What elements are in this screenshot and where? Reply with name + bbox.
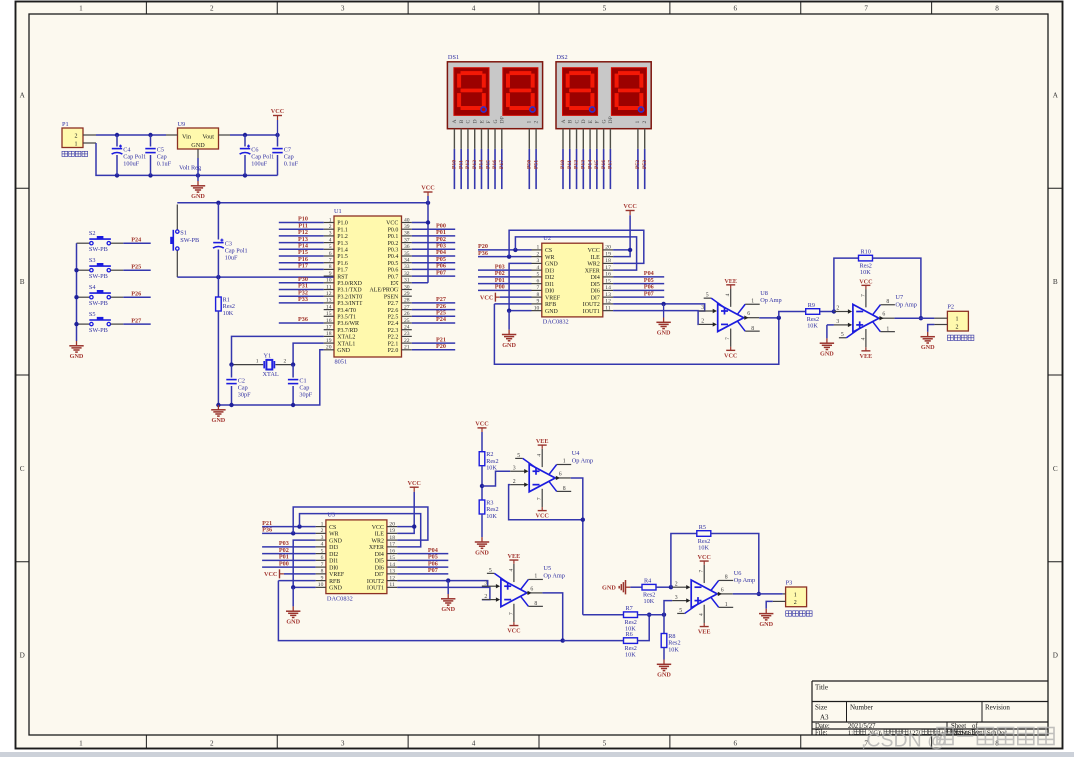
pin 1 bbox=[934, 317, 947, 319]
svg-text:10: 10 bbox=[326, 278, 332, 284]
svg-text:2: 2 bbox=[484, 594, 487, 600]
svg-text:24: 24 bbox=[404, 325, 410, 331]
svg-text:VCC: VCC bbox=[372, 525, 384, 531]
pin 18 bbox=[387, 539, 397, 541]
svg-text:VCC: VCC bbox=[271, 108, 284, 115]
svg-text:17: 17 bbox=[605, 265, 611, 271]
wire bbox=[412, 222, 428, 224]
pin 1 bbox=[562, 129, 564, 149]
svg-text:U6: U6 bbox=[734, 570, 742, 577]
wire bbox=[663, 615, 665, 634]
junction bbox=[507, 308, 511, 312]
ground bbox=[502, 330, 517, 349]
svg-text:3: 3 bbox=[537, 258, 540, 264]
wire bbox=[244, 155, 246, 175]
svg-text:P1.1: P1.1 bbox=[337, 227, 348, 233]
svg-text:F: F bbox=[595, 120, 601, 123]
pin 6 bbox=[744, 317, 760, 319]
svg-text:DI0: DI0 bbox=[545, 289, 554, 295]
svg-text:2: 2 bbox=[956, 324, 959, 330]
svg-text:DI5: DI5 bbox=[591, 282, 600, 288]
pin 3 bbox=[672, 600, 687, 602]
svg-text:DI1: DI1 bbox=[329, 559, 338, 565]
svg-text:P13: P13 bbox=[472, 160, 478, 169]
pin 6 bbox=[527, 592, 543, 594]
junction bbox=[216, 275, 220, 279]
svg-text:4: 4 bbox=[699, 613, 705, 616]
pin 10 bbox=[532, 310, 542, 312]
pin 1 bbox=[532, 249, 542, 251]
pin 38 bbox=[402, 235, 412, 237]
wire bbox=[563, 640, 624, 642]
svg-text:1: 1 bbox=[79, 5, 83, 13]
8051 MCU U1 bbox=[324, 208, 412, 366]
svg-text:GND: GND bbox=[441, 606, 455, 613]
svg-text:10uF: 10uF bbox=[225, 254, 238, 261]
svg-text:G: G bbox=[601, 119, 607, 123]
svg-text:P13: P13 bbox=[581, 160, 587, 169]
wire bbox=[609, 149, 611, 189]
svg-text:6: 6 bbox=[329, 251, 332, 257]
pin 28 bbox=[402, 302, 412, 304]
svg-text:5: 5 bbox=[321, 548, 324, 554]
pin 2 bbox=[532, 256, 542, 258]
wire bbox=[613, 283, 664, 285]
svg-text:B: B bbox=[459, 120, 465, 124]
svg-text:Op Amp: Op Amp bbox=[543, 572, 565, 579]
svg-text:IOUT1: IOUT1 bbox=[367, 586, 384, 592]
pin 14 bbox=[324, 309, 334, 311]
pin 3 bbox=[576, 129, 578, 149]
wire bbox=[300, 514, 421, 547]
pin 7 bbox=[316, 566, 326, 568]
wire bbox=[711, 534, 759, 594]
svg-text:2: 2 bbox=[675, 581, 678, 587]
junction bbox=[291, 403, 295, 407]
pin 3 bbox=[324, 235, 334, 237]
svg-text:2: 2 bbox=[701, 319, 704, 325]
svg-text:P3.0/RXD: P3.0/RXD bbox=[337, 281, 362, 287]
junction bbox=[229, 362, 233, 366]
pin 9 bbox=[324, 275, 334, 277]
wire bbox=[412, 248, 455, 250]
svg-text:12: 12 bbox=[389, 575, 395, 581]
svg-text:D: D bbox=[473, 119, 479, 123]
wire bbox=[412, 228, 455, 230]
svg-text:VREF: VREF bbox=[545, 295, 561, 301]
wire bbox=[515, 237, 636, 270]
svg-text:C: C bbox=[466, 120, 472, 124]
svg-text:P16: P16 bbox=[492, 160, 498, 169]
junction bbox=[662, 613, 666, 617]
svg-text:P15: P15 bbox=[485, 160, 491, 169]
wire bbox=[820, 311, 834, 313]
op-amp U8 bbox=[699, 278, 782, 360]
wire bbox=[397, 492, 414, 533]
pin 1 bbox=[316, 526, 326, 528]
svg-text:20: 20 bbox=[389, 521, 395, 527]
pin 3 bbox=[467, 129, 469, 149]
wire bbox=[279, 322, 324, 324]
svg-text:GND: GND bbox=[70, 353, 84, 360]
pin 16 bbox=[603, 276, 613, 278]
svg-text:GND: GND bbox=[337, 348, 351, 354]
pin 3 bbox=[532, 262, 542, 264]
svg-text:DAC0832: DAC0832 bbox=[327, 595, 353, 602]
switch S3 bbox=[77, 257, 124, 280]
wire bbox=[478, 276, 532, 278]
svg-text:VEE: VEE bbox=[698, 629, 711, 636]
pin 6 bbox=[324, 255, 334, 257]
svg-text:VCC: VCC bbox=[480, 294, 493, 301]
svg-text:36: 36 bbox=[404, 244, 410, 250]
svg-text:7: 7 bbox=[321, 562, 324, 568]
svg-text:27: 27 bbox=[404, 304, 410, 310]
switch S2 bbox=[77, 230, 124, 253]
pin 30 bbox=[402, 289, 412, 291]
wire bbox=[76, 243, 78, 341]
wire bbox=[412, 309, 455, 311]
svg-text:3: 3 bbox=[329, 231, 332, 237]
svg-text:WR2: WR2 bbox=[587, 262, 599, 268]
svg-text:P52: P52 bbox=[635, 160, 641, 169]
svg-text:VEE: VEE bbox=[536, 438, 549, 445]
svg-text:3: 3 bbox=[341, 740, 345, 748]
pin 1 bbox=[521, 579, 529, 589]
wire bbox=[613, 276, 664, 278]
pin 11 bbox=[324, 289, 334, 291]
pin 6 bbox=[879, 317, 895, 319]
switch S4 bbox=[77, 284, 124, 307]
svg-text:Op Amp: Op Amp bbox=[572, 457, 594, 464]
wire bbox=[637, 149, 639, 189]
pin 10 bbox=[535, 129, 537, 149]
svg-text:P20: P20 bbox=[436, 343, 446, 350]
svg-text:9: 9 bbox=[329, 271, 332, 277]
wire bbox=[482, 471, 510, 486]
svg-text:8: 8 bbox=[751, 326, 754, 332]
wire bbox=[478, 269, 532, 271]
wire bbox=[613, 249, 630, 251]
pin 31 bbox=[402, 282, 412, 284]
wire bbox=[397, 559, 448, 561]
svg-text:P15: P15 bbox=[594, 160, 600, 169]
svg-text:GND: GND bbox=[191, 142, 205, 149]
svg-text:DI2: DI2 bbox=[329, 552, 338, 558]
svg-text:19: 19 bbox=[605, 251, 611, 257]
power port VCC bbox=[264, 569, 284, 578]
svg-text:C: C bbox=[574, 120, 580, 124]
svg-text:XTAL1: XTAL1 bbox=[337, 341, 355, 347]
svg-text:P1.7: P1.7 bbox=[337, 268, 348, 274]
wire bbox=[613, 304, 705, 311]
title block bbox=[812, 681, 1048, 737]
svg-text:P1.2: P1.2 bbox=[337, 234, 348, 240]
pin 2 bbox=[324, 228, 334, 230]
pin 9 bbox=[316, 580, 326, 582]
svg-text:P36: P36 bbox=[262, 527, 272, 534]
svg-text:D: D bbox=[20, 652, 25, 660]
pin 11 bbox=[387, 586, 397, 588]
svg-text:20: 20 bbox=[605, 245, 611, 251]
svg-text:2: 2 bbox=[75, 134, 78, 140]
wire bbox=[397, 587, 490, 599]
power port VCC bbox=[407, 480, 420, 492]
crystal Y1 bbox=[232, 352, 294, 378]
pin 2 bbox=[934, 324, 947, 326]
pin 2 bbox=[834, 311, 849, 313]
wire bbox=[664, 601, 672, 615]
svg-text:23: 23 bbox=[404, 331, 410, 337]
svg-text:P07: P07 bbox=[428, 567, 438, 574]
svg-text:SW-PB: SW-PB bbox=[89, 327, 108, 334]
svg-text:16: 16 bbox=[605, 272, 611, 278]
pin 8 bbox=[521, 596, 529, 606]
svg-text:P1.5: P1.5 bbox=[337, 254, 348, 260]
wire bbox=[278, 580, 315, 582]
7-segment display DS1 bbox=[447, 54, 542, 149]
svg-text:GND: GND bbox=[329, 586, 343, 592]
svg-text:A: A bbox=[20, 91, 26, 99]
pin 6 bbox=[555, 477, 571, 479]
pin 8 bbox=[549, 481, 557, 491]
svg-text:32: 32 bbox=[404, 271, 410, 277]
svg-text:P33: P33 bbox=[298, 296, 308, 303]
svg-text:2: 2 bbox=[210, 5, 214, 13]
wire bbox=[638, 614, 665, 616]
svg-text:P0.6: P0.6 bbox=[388, 268, 399, 274]
svg-text:SW-PB: SW-PB bbox=[89, 246, 108, 253]
svg-text:Vin: Vin bbox=[182, 134, 191, 141]
svg-text:P1: P1 bbox=[62, 121, 69, 128]
pin 26 bbox=[402, 315, 412, 317]
svg-text:3: 3 bbox=[321, 535, 324, 541]
svg-text:2: 2 bbox=[210, 740, 214, 748]
wire bbox=[397, 526, 414, 528]
pin 24 bbox=[402, 329, 412, 331]
svg-text:P2.3: P2.3 bbox=[388, 328, 399, 334]
connector P3 bbox=[773, 579, 812, 616]
svg-text:7: 7 bbox=[537, 285, 540, 291]
wire bbox=[177, 202, 428, 204]
junction bbox=[426, 201, 430, 205]
svg-text:S4: S4 bbox=[89, 284, 97, 291]
wire bbox=[197, 175, 199, 181]
ground bbox=[211, 405, 226, 424]
svg-text:Revision: Revision bbox=[985, 704, 1010, 712]
svg-text:GND: GND bbox=[602, 584, 616, 591]
pin 8 bbox=[324, 268, 334, 270]
junction bbox=[412, 524, 416, 528]
svg-text:U1: U1 bbox=[334, 208, 342, 215]
wire bbox=[582, 149, 584, 189]
svg-text:P53: P53 bbox=[642, 160, 648, 169]
pin 19 bbox=[324, 342, 334, 344]
wire bbox=[576, 149, 578, 189]
svg-text:5: 5 bbox=[603, 5, 607, 13]
svg-text:D: D bbox=[581, 119, 587, 123]
svg-text:30pF: 30pF bbox=[238, 391, 251, 398]
svg-text:GND: GND bbox=[286, 619, 300, 626]
pin 2 bbox=[569, 129, 571, 149]
wire bbox=[232, 336, 324, 364]
junction bbox=[661, 302, 665, 306]
svg-text:SW-PB: SW-PB bbox=[180, 237, 199, 244]
power pin 7 VCC bbox=[541, 489, 543, 507]
svg-text:P11: P11 bbox=[458, 160, 464, 169]
svg-text:Op Amp: Op Amp bbox=[760, 297, 782, 304]
svg-text:DI6: DI6 bbox=[375, 565, 384, 571]
wire bbox=[509, 263, 531, 310]
svg-text:7: 7 bbox=[860, 294, 866, 297]
svg-text:Title: Title bbox=[815, 684, 828, 692]
svg-text:P0.4: P0.4 bbox=[388, 254, 399, 260]
wire bbox=[397, 573, 448, 575]
wire bbox=[481, 432, 483, 452]
pin 4 bbox=[316, 546, 326, 548]
svg-text:26: 26 bbox=[404, 311, 410, 317]
svg-text:1: 1 bbox=[321, 521, 324, 527]
svg-text:6: 6 bbox=[321, 555, 324, 561]
svg-text:XFER: XFER bbox=[369, 545, 384, 551]
svg-text:3: 3 bbox=[341, 5, 345, 13]
junction bbox=[229, 403, 233, 407]
wire bbox=[494, 149, 496, 189]
wire bbox=[123, 296, 150, 298]
svg-text:18: 18 bbox=[326, 331, 332, 337]
pin 14 bbox=[603, 289, 613, 291]
ground bbox=[820, 338, 835, 357]
pin 2 bbox=[672, 586, 687, 588]
wire bbox=[177, 276, 334, 278]
pin 3 bbox=[482, 585, 497, 587]
wire bbox=[230, 134, 278, 136]
svg-text:ALE/PROG: ALE/PROG bbox=[369, 288, 399, 294]
7-segment display DS2 bbox=[556, 54, 651, 149]
svg-text:37: 37 bbox=[404, 237, 410, 243]
svg-text:0.1uF: 0.1uF bbox=[157, 160, 172, 167]
svg-text:1: 1 bbox=[526, 121, 532, 124]
svg-text:S3: S3 bbox=[89, 257, 96, 264]
pin 2 bbox=[316, 532, 326, 534]
resistor R2 bbox=[479, 451, 498, 471]
capacitor C5 bbox=[145, 147, 171, 168]
wire bbox=[779, 312, 806, 318]
power pin 7 VCC bbox=[513, 604, 515, 622]
pin 13 bbox=[387, 573, 397, 575]
pin 11 bbox=[603, 310, 613, 312]
svg-text:DI7: DI7 bbox=[591, 295, 600, 301]
svg-text:5: 5 bbox=[706, 293, 709, 299]
svg-text:GND: GND bbox=[820, 351, 834, 358]
wire bbox=[397, 566, 448, 568]
svg-text:30: 30 bbox=[404, 284, 410, 290]
pin 1 bbox=[83, 142, 96, 144]
svg-text:P2.4: P2.4 bbox=[388, 321, 399, 327]
svg-text:VEE: VEE bbox=[860, 353, 873, 360]
svg-text:DI4: DI4 bbox=[375, 552, 384, 558]
pin 2 bbox=[699, 323, 714, 325]
pin 36 bbox=[402, 248, 412, 250]
svg-text:GND: GND bbox=[545, 262, 559, 268]
wire bbox=[397, 553, 448, 555]
power port VCC bbox=[421, 185, 434, 196]
svg-text:11: 11 bbox=[389, 582, 395, 588]
pin 40 bbox=[402, 222, 412, 224]
pin 12 bbox=[324, 295, 334, 297]
svg-text:4: 4 bbox=[472, 740, 476, 748]
junction bbox=[777, 316, 781, 320]
svg-text:VCC: VCC bbox=[407, 480, 420, 487]
svg-text:P3.5/T1: P3.5/T1 bbox=[337, 315, 356, 321]
svg-text:Op Amp: Op Amp bbox=[895, 301, 917, 308]
svg-text:8: 8 bbox=[329, 264, 332, 270]
junction bbox=[115, 173, 119, 177]
resistor R6 bbox=[624, 631, 638, 659]
pin 16 bbox=[387, 553, 397, 555]
ground bbox=[441, 594, 456, 613]
ground bbox=[921, 332, 936, 351]
wire bbox=[292, 365, 294, 378]
junction bbox=[243, 173, 247, 177]
wire bbox=[231, 386, 233, 405]
svg-text:File:: File: bbox=[815, 730, 828, 737]
svg-text:P16: P16 bbox=[601, 160, 607, 169]
pin 9 bbox=[637, 129, 639, 149]
wire bbox=[613, 289, 664, 291]
svg-text:2: 2 bbox=[836, 306, 839, 312]
svg-text:5: 5 bbox=[517, 453, 520, 459]
svg-text:6: 6 bbox=[530, 586, 533, 592]
svg-text:ILE: ILE bbox=[375, 532, 385, 538]
wire bbox=[279, 282, 324, 284]
svg-text:F: F bbox=[486, 120, 492, 123]
wire bbox=[412, 262, 455, 264]
svg-text:22: 22 bbox=[404, 338, 410, 344]
wire bbox=[481, 514, 483, 537]
capacitor C4 bbox=[112, 145, 147, 168]
switch S1 bbox=[170, 205, 199, 278]
pin 10 bbox=[644, 129, 646, 149]
svg-text:25: 25 bbox=[404, 318, 410, 324]
svg-text:21: 21 bbox=[404, 345, 410, 351]
svg-text:7: 7 bbox=[864, 5, 868, 13]
wire bbox=[412, 315, 455, 317]
svg-text:B: B bbox=[1053, 278, 1058, 286]
pin 1 bbox=[711, 597, 719, 607]
svg-text:19: 19 bbox=[389, 528, 395, 534]
resistor R3 bbox=[479, 500, 498, 520]
pin 19 bbox=[603, 256, 613, 258]
svg-text:17: 17 bbox=[389, 542, 395, 548]
ground bbox=[286, 606, 301, 625]
pin 5 bbox=[480, 129, 482, 149]
wire bbox=[412, 268, 455, 270]
svg-text:P0.7: P0.7 bbox=[388, 274, 399, 280]
svg-text:0.1uF: 0.1uF bbox=[284, 160, 299, 167]
svg-text:10: 10 bbox=[318, 582, 324, 588]
pin 33 bbox=[402, 268, 412, 270]
wire bbox=[500, 296, 532, 298]
svg-text:IOUT2: IOUT2 bbox=[367, 579, 384, 585]
pin 10 bbox=[324, 282, 334, 284]
wire bbox=[562, 149, 564, 189]
pin 6 bbox=[596, 129, 598, 149]
pin 17 bbox=[603, 269, 613, 271]
svg-text:1: 1 bbox=[256, 359, 259, 365]
wire bbox=[412, 242, 455, 244]
pin 4 bbox=[532, 269, 542, 271]
